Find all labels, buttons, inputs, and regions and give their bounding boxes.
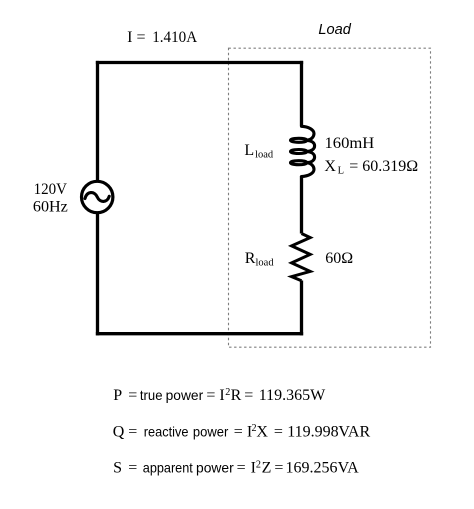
svg-text:120V: 120V bbox=[34, 181, 68, 198]
inductor Lload (coil symbol) bbox=[291, 126, 315, 176]
svg-text:=: = bbox=[274, 423, 283, 440]
label: current I = 1.410A bbox=[127, 29, 197, 46]
svg-text:119.998: 119.998 bbox=[287, 423, 338, 440]
svg-text:160mH: 160mH bbox=[325, 135, 375, 152]
wire bottom (bottom-left corner to bottom-right corner) bbox=[96, 332, 303, 335]
svg-text:R: R bbox=[231, 387, 242, 404]
svg-text:Load: Load bbox=[318, 22, 351, 38]
svg-text:Q: Q bbox=[113, 423, 125, 440]
svg-text:=: = bbox=[136, 29, 145, 46]
formula line: Q = reactive power = I2X = 119.998VAR bbox=[113, 423, 371, 440]
svg-text:reactive: reactive bbox=[144, 424, 189, 439]
wire right upper (top-right corner to inductor top) bbox=[300, 61, 303, 126]
svg-text:119.365W: 119.365W bbox=[259, 387, 326, 404]
svg-text:power: power bbox=[166, 388, 204, 403]
label: source value 120V 60Hz bbox=[33, 181, 68, 216]
wire right lower (resistor bottom to bottom-right corner) bbox=[300, 281, 303, 336]
svg-text:VA: VA bbox=[338, 460, 359, 477]
svg-text:true: true bbox=[140, 388, 163, 403]
formula line: S = apparent power = I2Z = 169.256VA bbox=[113, 460, 359, 477]
svg-text:= I: = I bbox=[234, 423, 252, 440]
AC voltage source (120V 60Hz) circle bbox=[82, 181, 113, 212]
svg-text:=: = bbox=[128, 423, 137, 440]
svg-text:VAR: VAR bbox=[338, 423, 370, 440]
svg-text:60Ω: 60Ω bbox=[325, 250, 353, 267]
svg-text:S: S bbox=[113, 460, 122, 477]
svg-text:X: X bbox=[256, 423, 268, 440]
AC voltage source sine-wave symbol bbox=[85, 193, 109, 202]
svg-text:=: = bbox=[237, 460, 246, 477]
svg-text:60Hz: 60Hz bbox=[33, 199, 68, 216]
svg-text:1.410A: 1.410A bbox=[152, 29, 197, 46]
wire between inductor and resistor bbox=[300, 176, 303, 234]
svg-text:=: = bbox=[128, 460, 137, 477]
formula line: P = true power = I2R = 119.365W bbox=[113, 387, 326, 404]
svg-text:2: 2 bbox=[256, 460, 261, 471]
wire left lower (source bottom to bottom-left corner) bbox=[96, 214, 99, 335]
svg-text:=: = bbox=[128, 387, 137, 404]
wire top (top-left corner to top-right corner) bbox=[96, 61, 303, 64]
svg-text:=: = bbox=[244, 387, 253, 404]
svg-text:P: P bbox=[113, 387, 122, 404]
svg-text:power: power bbox=[196, 461, 234, 476]
svg-text:= I: = I bbox=[206, 387, 224, 404]
wire left upper (source top to top-left corner) bbox=[96, 61, 99, 180]
resistor Rload (zigzag symbol) bbox=[292, 234, 311, 281]
svg-text:power: power bbox=[193, 424, 229, 439]
Load boundary box (dashed) bbox=[229, 48, 431, 347]
svg-text:apparent: apparent bbox=[143, 461, 193, 476]
svg-text:Z: Z bbox=[262, 460, 272, 477]
svg-text:169.256: 169.256 bbox=[286, 460, 338, 477]
svg-text:I: I bbox=[127, 29, 132, 46]
svg-text:=: = bbox=[274, 460, 283, 477]
